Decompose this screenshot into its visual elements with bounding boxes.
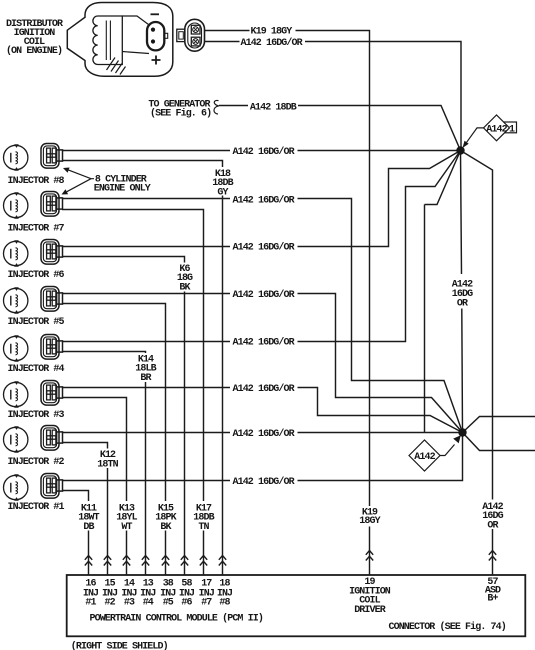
svg-text:A142 16DG/OR: A142 16DG/OR <box>233 146 295 158</box>
svg-text:A142 18DB: A142 18DB <box>250 103 297 114</box>
svg-text:A142 16DG/OR: A142 16DG/OR <box>233 195 295 207</box>
svg-text:TN: TN <box>198 522 209 533</box>
svg-text:A142: A142 <box>486 124 507 135</box>
svg-text:A142 16DG/OR: A142 16DG/OR <box>233 476 295 488</box>
svg-text:INJECTOR #2: INJECTOR #2 <box>8 457 65 468</box>
svg-text:A142 16DG/OR: A142 16DG/OR <box>233 383 295 395</box>
svg-text:WT: WT <box>121 522 132 533</box>
svg-text:B+: B+ <box>487 594 498 605</box>
svg-text:INJECTOR #3: INJECTOR #3 <box>8 410 65 421</box>
svg-text:#7: #7 <box>201 598 212 609</box>
svg-text:18GY: 18GY <box>359 516 380 527</box>
svg-text:A142: A142 <box>414 452 435 463</box>
svg-text:A142 16DG/OR: A142 16DG/OR <box>233 428 295 440</box>
svg-text:INJECTOR #7: INJECTOR #7 <box>8 223 65 234</box>
svg-text:INJECTOR #8: INJECTOR #8 <box>8 176 65 187</box>
svg-text:#4: #4 <box>143 598 154 609</box>
svg-text:BR: BR <box>140 373 151 384</box>
svg-text:#8: #8 <box>219 598 230 609</box>
svg-text:OR: OR <box>457 298 468 309</box>
svg-text:INJECTOR #1: INJECTOR #1 <box>8 502 65 513</box>
svg-text:POWERTRAIN CONTROL MODULE (PCM: POWERTRAIN CONTROL MODULE (PCM II) <box>90 612 263 624</box>
svg-text:#6: #6 <box>181 598 192 609</box>
svg-text:DB: DB <box>83 522 94 533</box>
svg-text:ENGINE ONLY: ENGINE ONLY <box>94 184 151 195</box>
svg-text:#1: #1 <box>85 598 96 609</box>
svg-text:A142 16DG/OR: A142 16DG/OR <box>241 37 303 49</box>
svg-text:18TN: 18TN <box>97 459 118 470</box>
svg-text:(RIGHT SIDE SHIELD): (RIGHT SIDE SHIELD) <box>71 641 168 650</box>
svg-text:(SEE Fig. 6): (SEE Fig. 6) <box>150 107 211 119</box>
svg-text:GY: GY <box>217 187 228 198</box>
svg-text:INJECTOR #5: INJECTOR #5 <box>8 317 65 328</box>
svg-text:A142 16DG/OR: A142 16DG/OR <box>233 289 295 301</box>
svg-text:1: 1 <box>509 124 515 135</box>
svg-text:K19 18GY: K19 18GY <box>251 27 293 38</box>
svg-text:INJECTOR #6: INJECTOR #6 <box>8 270 65 281</box>
svg-text:#5: #5 <box>163 598 174 609</box>
svg-text:BK: BK <box>160 522 171 533</box>
svg-text:#3: #3 <box>124 598 135 609</box>
svg-text:BK: BK <box>179 282 190 293</box>
svg-text:CONNECTOR (SEE Fig. 74): CONNECTOR (SEE Fig. 74) <box>389 621 506 633</box>
svg-text:DRIVER: DRIVER <box>354 605 386 616</box>
svg-text:A142 16DG/OR: A142 16DG/OR <box>233 337 295 349</box>
svg-text:A142 16DG/OR: A142 16DG/OR <box>233 242 295 254</box>
svg-text:INJECTOR #4: INJECTOR #4 <box>8 364 65 375</box>
svg-text:#2: #2 <box>104 598 115 609</box>
svg-text:OR: OR <box>487 520 498 531</box>
svg-text:(ON ENGINE): (ON ENGINE) <box>6 45 62 57</box>
